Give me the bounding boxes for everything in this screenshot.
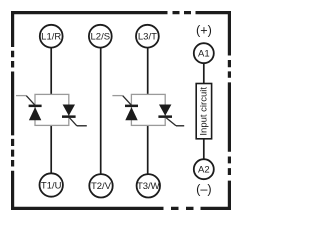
svg-text:(–): (–) bbox=[196, 182, 212, 196]
svg-text:T2/V: T2/V bbox=[91, 181, 112, 192]
thyristor SCR2 (right branch, pair 1) bbox=[62, 105, 76, 118]
svg-text:A1: A1 bbox=[198, 49, 210, 60]
gate lead SCR4 bbox=[165, 117, 184, 126]
gate lead SCR3 bbox=[112, 96, 131, 106]
svg-text:L2/S: L2/S bbox=[91, 32, 111, 43]
svg-text:A2: A2 bbox=[198, 165, 210, 176]
SCR pair 2 connecting loop bbox=[131, 94, 165, 125]
terminal A1 bbox=[194, 43, 214, 63]
gate lead SCR2 bbox=[69, 117, 87, 126]
svg-text:T1/U: T1/U bbox=[41, 180, 62, 191]
dashed enclosure border (SSR outline) bbox=[11, 11, 231, 210]
terminal L1/R bbox=[40, 25, 63, 48]
wire L2/S to T2/V bbox=[100, 48, 102, 174]
wire SCR pair 2 to T3/W bbox=[147, 126, 149, 175]
wire SCR pair 1 to T1/U bbox=[50, 126, 52, 174]
svg-text:L1/R: L1/R bbox=[41, 32, 61, 43]
gate lead SCR1 bbox=[16, 96, 35, 106]
svg-text:Input circuit: Input circuit bbox=[199, 87, 210, 136]
right edge bbox=[228, 11, 231, 210]
svg-text:(+): (+) bbox=[196, 23, 212, 37]
wire L1/R to SCR pair 1 bbox=[50, 48, 52, 95]
wire L3/T to SCR pair 2 bbox=[147, 48, 149, 95]
SCR pair 1 connecting loop bbox=[35, 94, 69, 125]
terminal L3/T bbox=[136, 25, 159, 48]
input circuit block U1 bbox=[196, 84, 211, 139]
terminal A2 bbox=[194, 159, 214, 179]
svg-text:T3/W: T3/W bbox=[137, 181, 160, 192]
thyristor SCR1 (left branch, pair 1) bbox=[29, 105, 42, 121]
terminal T2/V bbox=[89, 174, 112, 197]
left edge bbox=[11, 11, 14, 210]
bottom edge bbox=[11, 207, 231, 210]
top edge bbox=[11, 11, 231, 14]
terminal T1/U bbox=[40, 173, 63, 196]
wire input circuit to A2 bbox=[203, 139, 205, 159]
thyristor SCR4 (right branch, pair 2) bbox=[158, 105, 172, 118]
thyristor SCR3 (left branch, pair 2) bbox=[125, 105, 138, 121]
wire A1 to input circuit bbox=[203, 63, 205, 83]
terminal L2/S bbox=[89, 25, 112, 48]
svg-text:L3/T: L3/T bbox=[138, 32, 157, 43]
terminal T3/W bbox=[137, 174, 160, 197]
